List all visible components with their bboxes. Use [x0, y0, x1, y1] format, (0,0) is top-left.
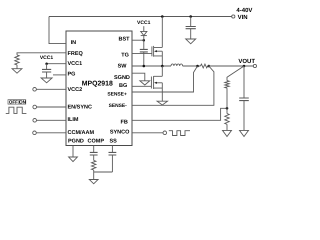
- transistor Q2 channel bar: [153, 76, 155, 89]
- transistor Q2 source stub: [154, 83, 163, 101]
- capacitor COUT top lead: [243, 66, 245, 98]
- resistor R2 feedback bottom: [225, 114, 229, 125]
- svg-text:VCC1: VCC1: [137, 20, 151, 26]
- capacitor C-BST bottom lead to SW: [143, 52, 145, 66]
- node junction SW / BST cap: [143, 65, 146, 68]
- capacitor CIN bottom lead: [190, 29, 192, 39]
- transistor Q1 drain stub: [154, 17, 163, 48]
- svg-text:VOUT: VOUT: [238, 58, 255, 65]
- diode D1 bootstrap triangle: [141, 31, 147, 35]
- wire SYNCO pin: [132, 132, 163, 134]
- ground below COMP: [89, 180, 98, 184]
- inductor L1: [171, 64, 183, 66]
- svg-text:SENSE-: SENSE-: [109, 103, 128, 109]
- svg-text:COMP: COMP: [88, 138, 105, 144]
- node junction VOUT: [243, 65, 246, 68]
- ground below CIN: [186, 39, 196, 44]
- node junction BST: [143, 39, 146, 42]
- capacitor C-SS plates: [109, 152, 117, 155]
- svg-text:VCC2: VCC2: [68, 87, 83, 93]
- svg-text:BG: BG: [119, 83, 127, 89]
- wire EN/SYNC pin: [37, 106, 67, 108]
- wire C-SS bottom lead: [111, 155, 113, 172]
- svg-text:OFF: OFF: [9, 100, 18, 105]
- diode D1 bootstrap cathode bar: [141, 35, 147, 37]
- capacitor COUT plates: [239, 98, 249, 101]
- capacitor CIN plates: [186, 27, 196, 29]
- capacitor C-VCC1 bottom lead: [46, 72, 48, 78]
- waveform SYNCO square pulse: [169, 131, 190, 136]
- wire R1 to FB node: [226, 88, 228, 108]
- resistor R-SENSE: [200, 64, 207, 68]
- transistor Q1 gate bar: [151, 46, 153, 56]
- terminal ILIM: [33, 119, 37, 123]
- svg-text:SS: SS: [110, 138, 118, 144]
- wire CCM/AAM pin: [36, 132, 66, 134]
- svg-text:SGND: SGND: [114, 75, 130, 81]
- ground below PGND: [69, 157, 78, 162]
- capacitor C-COMP plates: [90, 152, 98, 155]
- switch OFF box: [8, 100, 19, 104]
- svg-text:TG: TG: [121, 52, 129, 58]
- node junction rail / input cap: [189, 15, 192, 18]
- wire SW pin output line: [132, 65, 171, 67]
- wire PG pin stub: [53, 74, 66, 76]
- capacitor CIN lead: [190, 17, 192, 27]
- wire FB pin: [132, 108, 227, 120]
- wire TG pin to Q1 gate: [132, 53, 152, 55]
- wire R2 to ground: [226, 124, 228, 130]
- capacitor C-BST plates: [140, 49, 148, 52]
- node junction FB divider: [226, 107, 229, 110]
- wire R-COMP to ground node: [93, 170, 95, 180]
- waveform EN square pulse: [6, 107, 27, 113]
- node junction SENSE- tap: [208, 65, 211, 68]
- node junction rail / Q1 drain: [161, 15, 164, 18]
- svg-text:IN: IN: [71, 40, 77, 46]
- wire diode anode stub: [143, 26, 145, 31]
- wire inductor to sense resistor: [183, 65, 201, 67]
- ground below SGND: [140, 81, 150, 85]
- wire sense resistor to VOUT: [208, 65, 254, 67]
- wire VIN top rail: [49, 16, 232, 18]
- wire VCC1 pin: [47, 63, 66, 65]
- svg-text:PGND: PGND: [68, 138, 84, 144]
- wire BST pin: [132, 39, 144, 41]
- svg-text:BST: BST: [119, 36, 131, 42]
- op-amp U1 MPQ2918 IC body: [66, 31, 132, 146]
- resistor R-COMP: [91, 160, 95, 170]
- terminal SYNCO: [163, 131, 167, 135]
- svg-text:EN/SYNC: EN/SYNC: [68, 105, 92, 111]
- svg-text:FREQ: FREQ: [68, 51, 84, 57]
- svg-text:SYNCO: SYNCO: [110, 130, 130, 136]
- terminal EN/SYNC: [33, 105, 37, 109]
- node junction SW / FET node: [161, 65, 164, 68]
- wire FB node to R2: [226, 108, 228, 113]
- capacitor COUT bottom lead: [243, 101, 245, 131]
- svg-text:CCM/AAM: CCM/AAM: [68, 130, 95, 136]
- wire VCC2 pin: [36, 88, 66, 90]
- resistor R1 feedback top: [225, 81, 229, 89]
- transistor Q1 source stub: [154, 51, 163, 66]
- ground below C-VCC1: [41, 78, 52, 83]
- terminal CCM/AAM: [33, 131, 37, 135]
- transistor Q1 channel bar: [153, 46, 155, 57]
- ground below R2: [223, 130, 232, 136]
- wire BG pin to Q2 gate: [132, 85, 151, 87]
- node junction VCC1: [45, 62, 48, 64]
- capacitor C-VCC1 plates: [42, 69, 51, 72]
- wire IN pin to VIN rail: [49, 17, 66, 44]
- ground below COUT: [240, 130, 249, 136]
- wire SGND pin: [132, 73, 145, 81]
- transistor Q2 body arrow: [154, 82, 157, 84]
- wire ILIM pin: [37, 119, 67, 121]
- transistor Q2 drain stub: [154, 66, 163, 76]
- wire SS cap to COMP ground node: [94, 171, 113, 173]
- transistor Q2 gate bar: [150, 77, 152, 89]
- svg-text:VCC1: VCC1: [68, 61, 83, 67]
- svg-text:ON: ON: [19, 100, 26, 105]
- svg-text:4-40V: 4-40V: [236, 7, 252, 14]
- wire FREQ pin: [17, 53, 66, 55]
- svg-text:FB: FB: [120, 120, 127, 126]
- svg-text:ILIM: ILIM: [68, 117, 79, 123]
- wire diode cathode to BST node: [143, 36, 145, 40]
- svg-text:MPQ2918: MPQ2918: [82, 81, 113, 88]
- capacitor C-VCC1 lead: [46, 64, 48, 70]
- wire SENSE- pin: [132, 66, 214, 105]
- terminal VIN: [232, 15, 235, 18]
- svg-text:VIN: VIN: [238, 14, 248, 21]
- svg-text:SW: SW: [118, 64, 128, 70]
- terminal VCC2: [33, 88, 37, 92]
- wire R-FREQ to ground: [16, 65, 18, 69]
- ground below R-FREQ: [12, 69, 22, 74]
- wire SENSE+ pin: [132, 66, 198, 92]
- wire COMP pin: [93, 146, 95, 153]
- svg-text:PG: PG: [68, 72, 76, 78]
- resistor R-FREQ: [15, 55, 19, 65]
- wire SS pin: [111, 146, 113, 153]
- terminal VOUT: [253, 64, 256, 67]
- capacitor C-BST top lead: [143, 40, 145, 49]
- node junction SENSE+ tap: [196, 65, 199, 68]
- ground below Q2 source: [157, 101, 167, 105]
- transistor Q2 body lead: [157, 82, 162, 84]
- svg-text:VCC1: VCC1: [40, 55, 54, 61]
- wire PGND pin: [72, 146, 74, 158]
- transistor Q1 body lead: [157, 50, 162, 52]
- switch ON box: [19, 100, 26, 104]
- transistor Q1 body arrow: [154, 50, 157, 52]
- wire VOUT to R1 diagonal: [227, 66, 244, 81]
- svg-text:SENSE+: SENSE+: [107, 92, 127, 98]
- wire C-COMP to R-COMP: [93, 155, 95, 160]
